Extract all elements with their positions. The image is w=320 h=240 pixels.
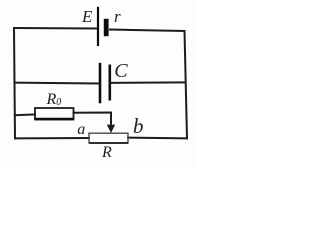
wire R0 branch left bbox=[15, 113, 35, 116]
capacitor C right plate bbox=[109, 65, 112, 101]
capacitor C left plate bbox=[99, 63, 102, 104]
resistor R0 box bottom edge (darker scan ink) bbox=[35, 118, 74, 120]
wire capacitor rail right bbox=[111, 81, 185, 84]
resistor R0 box bbox=[35, 108, 74, 120]
svg-text:R0: R0 bbox=[46, 91, 62, 108]
svg-text:r: r bbox=[114, 7, 121, 26]
svg-text:b: b bbox=[133, 114, 144, 138]
wire right edge bbox=[185, 31, 188, 139]
wiper arrow head bbox=[107, 125, 115, 133]
wire left edge bbox=[14, 28, 15, 138]
rheostat R box bottom edge (darker scan ink) bbox=[90, 142, 129, 144]
battery E long plate bbox=[97, 7, 99, 46]
rheostat R box bbox=[89, 133, 128, 143]
wire top rail right bbox=[110, 30, 185, 32]
wire bottom right bbox=[128, 137, 187, 140]
wire top rail left bbox=[14, 27, 97, 30]
svg-text:a: a bbox=[77, 121, 85, 138]
svg-text:E: E bbox=[81, 7, 93, 26]
wire capacitor rail left bbox=[15, 82, 99, 85]
battery E short thick plate bbox=[104, 19, 109, 36]
wire R0 to wiper bbox=[74, 113, 112, 126]
svg-text:C: C bbox=[114, 60, 128, 82]
svg-text:R: R bbox=[101, 144, 112, 161]
wire bottom left bbox=[15, 137, 89, 139]
